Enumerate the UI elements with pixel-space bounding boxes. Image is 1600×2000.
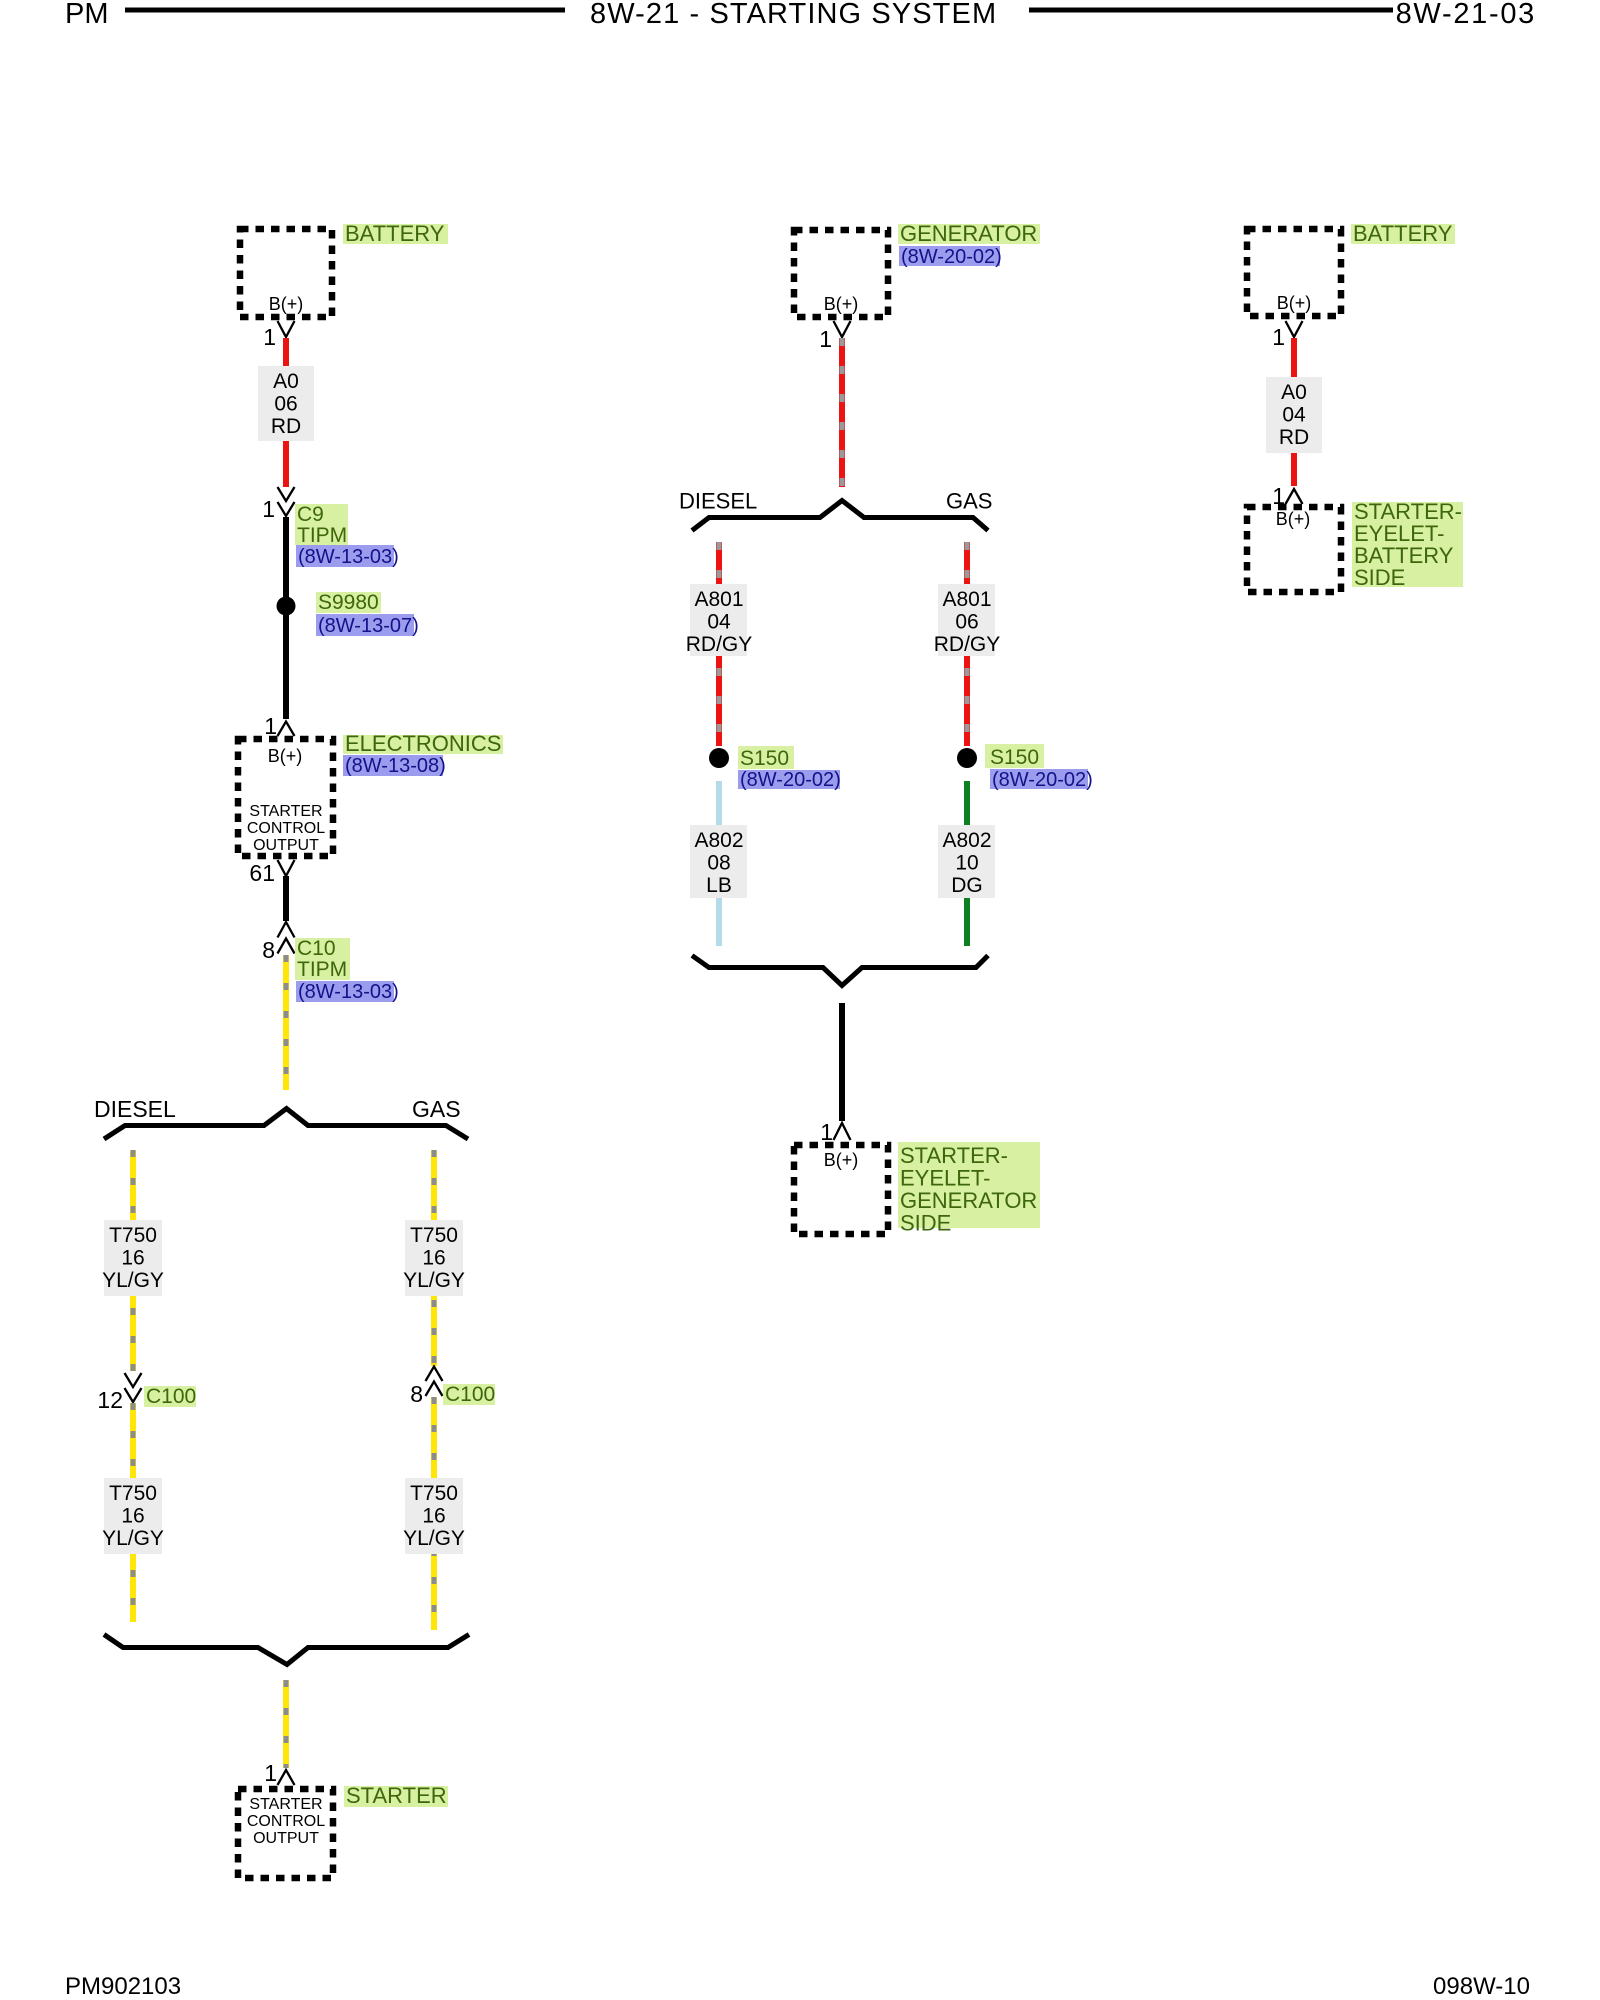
svg-text:(8W-13-03): (8W-13-03): [298, 546, 399, 568]
svg-text:A802: A802: [694, 829, 743, 852]
svg-text:B(+): B(+): [269, 294, 304, 314]
value label T750 16 YL/GY gas upper: [403, 1220, 465, 1296]
svg-text:EYELET-: EYELET-: [900, 1166, 990, 1191]
split brace diesel/gas middle column: [692, 501, 988, 531]
svg-text:C10: C10: [297, 937, 336, 960]
svg-text:C100: C100: [445, 1383, 495, 1406]
component battery (right): [1247, 229, 1341, 316]
svg-text:ELECTRONICS: ELECTRONICS: [345, 731, 501, 756]
splice S150 gas: [957, 748, 977, 768]
label STARTER CONTROL OUTPUT inside starter: [247, 1796, 325, 1847]
connector C100 diesel double V: [125, 1373, 142, 1402]
wire YL/GY diesel branch upper: [130, 1150, 136, 1220]
connector caret into starter: [278, 1770, 295, 1785]
wire YL/GY gas to merge: [431, 1554, 437, 1630]
svg-text:TIPM: TIPM: [297, 958, 347, 981]
svg-text:DG: DG: [951, 874, 983, 897]
svg-text:04: 04: [1282, 404, 1306, 427]
svg-text:T750: T750: [109, 1224, 157, 1247]
svg-text:B(+): B(+): [1276, 509, 1311, 529]
label (8W-20-02) diesel: [738, 769, 841, 791]
svg-text:(8W-20-02): (8W-20-02): [992, 769, 1093, 791]
splice S150 diesel: [709, 748, 729, 768]
wire A0 06 RD lower segment: [283, 441, 289, 487]
svg-text:S150: S150: [990, 746, 1039, 769]
svg-text:B(+): B(+): [824, 1150, 859, 1170]
wire A802 10 DG upper: [964, 781, 970, 825]
wire A801 04 RD/GY lower: [716, 656, 722, 746]
svg-text:098W-10: 098W-10: [1433, 1973, 1530, 2000]
svg-text:S9980: S9980: [318, 591, 379, 614]
svg-text:BATTERY: BATTERY: [345, 221, 445, 246]
svg-text:CONTROL: CONTROL: [247, 1813, 325, 1830]
connector half V at generator: [834, 321, 851, 337]
svg-text:STARTER: STARTER: [249, 1796, 322, 1813]
svg-text:STARTER: STARTER: [346, 1783, 447, 1808]
header rule left: [125, 8, 565, 13]
svg-text:RD/GY: RD/GY: [934, 633, 1001, 656]
svg-text:A0: A0: [273, 370, 299, 393]
svg-text:SIDE: SIDE: [1354, 565, 1405, 590]
svg-text:CONTROL: CONTROL: [247, 820, 325, 837]
merge brace left column: [104, 1635, 469, 1665]
connector C10 double caret: [278, 922, 295, 954]
component battery (left): [240, 229, 332, 317]
svg-text:8: 8: [262, 937, 275, 963]
wire YL/GY gas branch upper: [431, 1150, 437, 1220]
svg-text:YL/GY: YL/GY: [102, 1527, 164, 1550]
value label A802 08 LB: [690, 825, 747, 898]
svg-text:(8W-20-02): (8W-20-02): [740, 769, 841, 791]
svg-text:A801: A801: [694, 588, 743, 611]
svg-text:PM902103: PM902103: [65, 1973, 181, 2000]
component starter: [238, 1789, 333, 1878]
svg-text:06: 06: [274, 393, 297, 416]
component electronics module: [238, 739, 333, 856]
svg-text:A0: A0: [1281, 381, 1307, 404]
svg-text:06: 06: [955, 611, 978, 634]
label C100 gas: [443, 1383, 495, 1406]
wire black electronics to C10: [283, 876, 289, 921]
svg-text:12: 12: [97, 1387, 123, 1413]
label GENERATOR: [898, 221, 1040, 246]
wire YL/GY diesel to merge: [130, 1554, 136, 1622]
wire A801 04 RD/GY upper: [716, 542, 722, 584]
value label T750 16 YL/GY diesel lower: [102, 1478, 164, 1554]
connector caret into starter eyelet battery side: [1286, 489, 1303, 504]
split brace diesel/gas left column: [104, 1109, 468, 1140]
svg-text:B(+): B(+): [824, 294, 859, 314]
label (8W-20-02) gas: [990, 769, 1093, 791]
header rule right: [1029, 8, 1393, 13]
wire A801 RD/GY trunk: [839, 338, 845, 487]
svg-text:8: 8: [410, 1381, 423, 1407]
label (8W-13-07): [316, 614, 419, 637]
svg-text:GENERATOR: GENERATOR: [900, 1188, 1037, 1213]
value label A801 04 RD/GY: [686, 584, 753, 656]
label STARTER-EYELET-GENERATOR SIDE: [898, 1142, 1040, 1236]
svg-text:YL/GY: YL/GY: [403, 1269, 465, 1292]
label STARTER: [344, 1783, 448, 1808]
svg-text:DIESEL: DIESEL: [679, 489, 757, 514]
svg-text:B(+): B(+): [1277, 293, 1312, 313]
label (8W-20-02) at generator: [899, 246, 1002, 268]
svg-text:S150: S150: [740, 747, 789, 770]
svg-text:A802: A802: [942, 829, 991, 852]
label STARTER-EYELET-BATTERY SIDE: [1352, 499, 1463, 590]
svg-text:1: 1: [262, 496, 275, 522]
connector half V at battery right: [1286, 321, 1303, 337]
svg-text:YL/GY: YL/GY: [403, 1527, 465, 1550]
label S9980: [316, 591, 381, 614]
wire A802 08 LB lower: [716, 898, 722, 946]
wire A0 04 RD lower: [1291, 453, 1297, 486]
label BATTERY (right): [1351, 221, 1455, 246]
svg-text:C100: C100: [146, 1385, 196, 1408]
svg-text:C9: C9: [297, 503, 324, 526]
label ELECTRONICS: [343, 731, 503, 756]
connector caret into electronics: [278, 722, 295, 737]
svg-text:1: 1: [264, 1760, 277, 1786]
svg-text:OUTPUT: OUTPUT: [253, 837, 319, 854]
svg-text:1: 1: [264, 713, 277, 739]
wire YL/GY merged to starter: [283, 1680, 289, 1768]
svg-text:B(+): B(+): [268, 746, 303, 766]
connector half V at battery left: [278, 321, 295, 337]
connector C9 double V: [278, 487, 295, 516]
svg-text:OUTPUT: OUTPUT: [253, 1830, 319, 1847]
wire A0 06 RD upper segment: [283, 338, 289, 366]
svg-text:SIDE: SIDE: [900, 1211, 951, 1236]
svg-text:T750: T750: [109, 1482, 157, 1505]
svg-text:BATTERY: BATTERY: [1353, 221, 1453, 246]
label S150 diesel: [738, 746, 794, 770]
svg-text:STARTER: STARTER: [249, 803, 322, 820]
svg-text:RD: RD: [271, 415, 301, 438]
svg-text:RD: RD: [1279, 426, 1309, 449]
svg-text:8W-21-03: 8W-21-03: [1396, 0, 1536, 30]
component starter eyelet generator side: [794, 1145, 888, 1234]
wire black C9 to electronics: [283, 517, 289, 719]
label (8W-13-08): [343, 755, 446, 777]
label (8W-13-03) at C9: [296, 545, 399, 568]
svg-text:LB: LB: [706, 874, 732, 897]
svg-text:YL/GY: YL/GY: [102, 1269, 164, 1292]
label BATTERY (left): [343, 221, 448, 246]
svg-text:04: 04: [707, 611, 731, 634]
svg-text:8W-21 - STARTING SYSTEM: 8W-21 - STARTING SYSTEM: [590, 0, 997, 30]
wire YL/GY gas below C100: [431, 1397, 437, 1478]
wire T750 YL/GY trunk: [283, 955, 289, 1090]
component generator: [794, 230, 888, 317]
value label A802 10 DG: [938, 825, 995, 898]
label C10 TIPM: [295, 937, 350, 981]
label STARTER CONTROL OUTPUT inside electronics: [247, 803, 325, 854]
value label A0 06 RD: [258, 366, 314, 441]
svg-text:A801: A801: [942, 588, 991, 611]
value label T750 16 YL/GY gas lower: [403, 1478, 465, 1554]
svg-text:1: 1: [263, 324, 276, 350]
wire A801 06 RD/GY lower: [964, 656, 970, 746]
svg-text:GENERATOR: GENERATOR: [900, 221, 1037, 246]
wire A801 06 RD/GY upper: [964, 542, 970, 584]
wire YL/GY gas branch to C100: [431, 1296, 437, 1366]
svg-text:16: 16: [422, 1505, 445, 1528]
svg-text:RD/GY: RD/GY: [686, 633, 753, 656]
svg-text:08: 08: [707, 852, 730, 875]
svg-text:1: 1: [820, 1119, 833, 1145]
merge brace middle column: [692, 956, 988, 986]
label C9 TIPM: [295, 503, 348, 547]
svg-text:(8W-13-08): (8W-13-08): [345, 755, 446, 777]
svg-text:(8W-13-07): (8W-13-07): [318, 615, 419, 637]
svg-text:T750: T750: [410, 1224, 458, 1247]
svg-text:PM: PM: [65, 0, 109, 30]
value label T750 16 YL/GY diesel upper: [102, 1220, 164, 1296]
svg-text:DIESEL: DIESEL: [94, 1096, 176, 1122]
connector C100 gas double caret: [426, 1367, 443, 1397]
svg-text:10: 10: [955, 852, 978, 875]
splice S9980: [277, 597, 296, 616]
svg-text:16: 16: [422, 1247, 445, 1270]
value label A0 04 RD: [1266, 377, 1322, 453]
svg-text:GAS: GAS: [946, 489, 992, 514]
svg-text:(8W-20-02): (8W-20-02): [901, 246, 1002, 268]
svg-text:16: 16: [121, 1505, 144, 1528]
wire A802 08 LB upper: [716, 781, 722, 825]
value label A801 06 RD/GY: [934, 584, 1001, 656]
connector caret into starter eyelet generator side: [834, 1123, 851, 1140]
svg-text:61: 61: [249, 860, 275, 886]
svg-text:T750: T750: [410, 1482, 458, 1505]
component starter eyelet battery side: [1247, 507, 1341, 592]
wire YL/GY diesel branch to C100: [130, 1296, 136, 1371]
svg-text:TIPM: TIPM: [297, 524, 347, 547]
label C100 diesel: [144, 1385, 196, 1408]
connector half V at pin 61: [278, 860, 295, 876]
svg-text:GAS: GAS: [412, 1096, 461, 1122]
label S150 gas: [985, 744, 1044, 769]
svg-text:STARTER-: STARTER-: [900, 1143, 1008, 1168]
svg-text:16: 16: [121, 1247, 144, 1270]
wire A0 04 RD upper: [1291, 338, 1297, 377]
svg-text:1: 1: [1272, 324, 1285, 350]
wire A802 10 DG lower: [964, 898, 970, 946]
label (8W-13-03) at C10: [296, 981, 399, 1003]
wire black merged to starter eyelet: [839, 1003, 845, 1121]
svg-text:(8W-13-03): (8W-13-03): [298, 981, 399, 1003]
wire YL/GY diesel below C100: [130, 1403, 136, 1478]
svg-text:1: 1: [819, 326, 832, 352]
